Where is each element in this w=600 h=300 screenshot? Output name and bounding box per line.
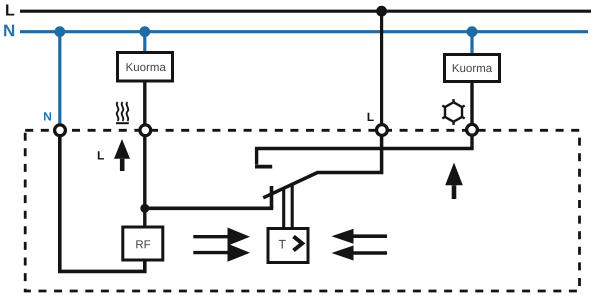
wire N bus to terminal N xyxy=(58,32,61,125)
terminal load2 xyxy=(467,124,478,135)
wire N bus xyxy=(20,30,588,33)
wire N bus to load 1 xyxy=(143,32,146,52)
wire N bus to load 2 xyxy=(470,32,473,54)
junction on L bus xyxy=(376,6,387,17)
heating element icon (steam waves) xyxy=(116,102,129,123)
arrow load 2 feed (up) xyxy=(445,163,463,200)
terminal N xyxy=(55,125,66,136)
load box Kuorma 2 xyxy=(445,55,500,82)
wire RF node to switch stub xyxy=(145,207,273,211)
net label N xyxy=(4,25,14,37)
double arrow into T right side (pointing left) xyxy=(332,229,388,261)
wire L bus to terminal L xyxy=(380,11,383,124)
receiver box RF xyxy=(123,227,163,260)
junction dot RF node xyxy=(140,204,149,213)
terminal L xyxy=(377,125,388,136)
switch lever xyxy=(263,136,381,198)
junction on N bus right xyxy=(467,26,478,37)
net label L xyxy=(6,4,14,15)
load box Kuorma 1 xyxy=(118,53,173,82)
junction on N bus middle xyxy=(139,26,150,37)
terminal load1 xyxy=(140,125,151,136)
wire load 1 to terminal xyxy=(143,81,146,126)
actuator box T xyxy=(268,229,308,263)
fixed contact bar xyxy=(255,165,272,169)
switch stub xyxy=(270,186,274,208)
double arrow RF to T (pointing right) xyxy=(193,228,250,262)
arrow L input (up) xyxy=(114,139,130,171)
junction on N bus left xyxy=(54,26,65,37)
wire N return (terminal N to RF bottom) xyxy=(60,136,145,271)
wire terminal 2 to RF xyxy=(143,136,146,227)
wire load 2 to terminal xyxy=(470,82,473,126)
lamp icon (hexagon with ticks) xyxy=(442,99,464,125)
terminal label L xyxy=(368,113,374,121)
terminal label N xyxy=(44,112,51,120)
actuator mechanical link xyxy=(282,187,285,228)
wire L bus xyxy=(20,10,591,13)
wire terminal 4 to fixed contact xyxy=(257,135,472,165)
enclosure dashed box xyxy=(25,130,579,291)
label L at input arrow xyxy=(98,151,104,159)
